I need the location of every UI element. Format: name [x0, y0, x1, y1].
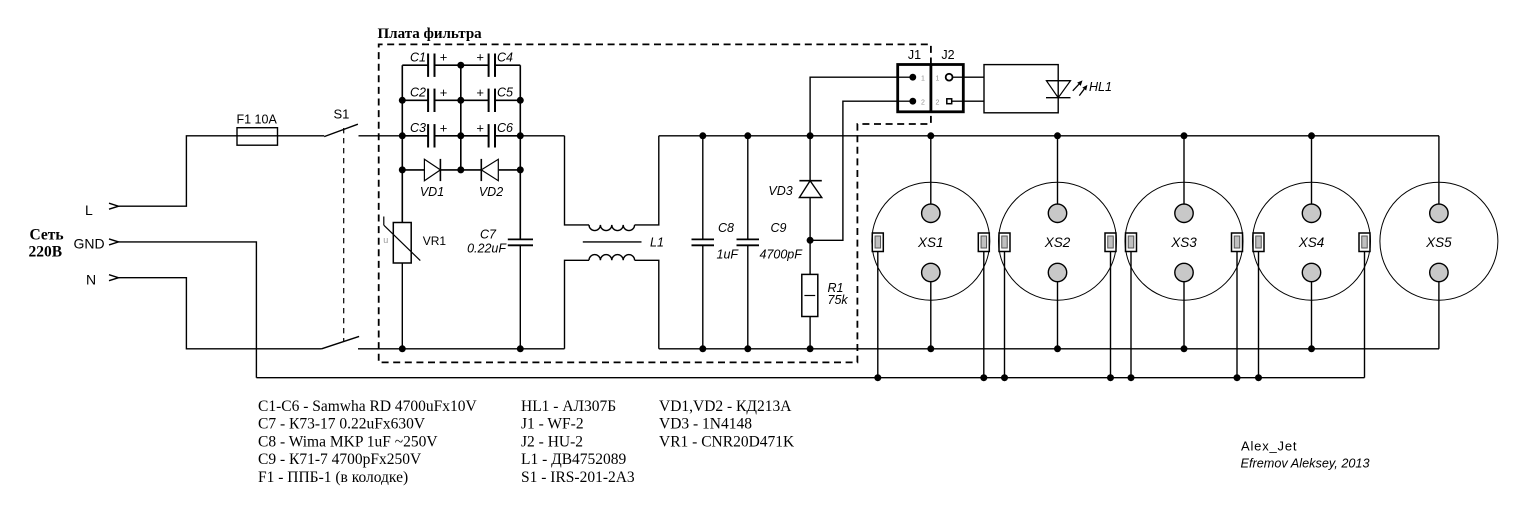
signature [1241, 439, 1370, 471]
wire XS4 right contact to ground bus [1364, 252, 1366, 378]
socket XS5 [1380, 182, 1498, 300]
svg-text:C5: C5 [497, 86, 513, 100]
svg-text:1: 1 [921, 76, 925, 83]
socket XS3 [1125, 182, 1243, 300]
wire socket XS2 right contact to ground bus [1110, 252, 1112, 378]
wire cap bank middle rail [460, 65, 462, 170]
ground bus [256, 377, 1364, 379]
wire socket XS3 right contact to ground bus [1236, 252, 1238, 378]
filter board dashed outline [379, 44, 931, 362]
switch S1 linkage [343, 128, 345, 342]
svg-text:VD2: VD2 [479, 185, 503, 199]
svg-text:L: L [85, 202, 93, 218]
LED HL1 [1046, 80, 1112, 98]
svg-text:C9 - К71-7 4700pFx250V: C9 - К71-7 4700pFx250V [258, 451, 422, 468]
svg-text:C9: C9 [771, 221, 787, 235]
wire socket XS2 top pin [1057, 136, 1059, 204]
wire J2 pin1 to lamp [963, 76, 984, 78]
wire cap bank left rail [401, 65, 403, 222]
svg-text:C3: C3 [410, 121, 426, 135]
svg-text:GND: GND [74, 236, 105, 252]
fuse F1 10A [237, 113, 278, 146]
svg-text:J2: J2 [941, 48, 954, 62]
svg-text:C7: C7 [480, 228, 497, 242]
connector J1 [898, 48, 964, 112]
legend component list [258, 398, 795, 486]
svg-text:J1: J1 [908, 48, 921, 62]
svg-text:XS1: XS1 [917, 235, 944, 250]
wire socket XS1 bottom pin [930, 282, 932, 349]
svg-text:J2 - HU-2: J2 - HU-2 [521, 433, 583, 450]
svg-text:C1: C1 [410, 51, 426, 65]
capacitor C8 [692, 136, 740, 349]
wire socket XS5 bottom pin to neutral [1438, 282, 1440, 349]
wire neutral rail S1 to choke [358, 348, 565, 350]
terminal L [85, 202, 119, 218]
mains label Сеть 220В [29, 227, 64, 261]
diode VD2 [461, 159, 521, 199]
svg-text:F1 10A: F1 10A [237, 113, 278, 127]
svg-text:S1: S1 [334, 107, 350, 122]
wire C7 to neutral [519, 245, 521, 348]
wire VR1 to neutral [401, 263, 403, 349]
lamp HL1 body [984, 65, 1058, 113]
svg-text:C8 - Wima MKP 1uF ~250V: C8 - Wima MKP 1uF ~250V [258, 433, 438, 450]
socket XS1 [872, 182, 990, 300]
wire socket XS1 top pin [930, 136, 932, 204]
wire socket XS1 right contact to ground bus [983, 252, 985, 378]
wire neutral rail choke to sockets [659, 348, 1439, 350]
wire N terminal to neutral rail [119, 278, 322, 349]
inductor L1 core [583, 241, 642, 243]
varistor VR1 [383, 217, 446, 264]
svg-text:Сеть: Сеть [30, 227, 64, 244]
diode VD1 [402, 159, 461, 199]
svg-text:Плата фильтра: Плата фильтра [378, 26, 483, 42]
svg-text:u: u [383, 235, 388, 245]
wire top rail choke to sockets [659, 135, 1439, 137]
capacitor C9 [737, 136, 804, 349]
svg-text:C6: C6 [497, 121, 513, 135]
svg-text:220В: 220В [29, 244, 63, 261]
svg-text:VD1,VD2 - КД213А: VD1,VD2 - КД213А [659, 398, 792, 415]
wire socket XS1 left contact to ground bus [877, 252, 879, 378]
svg-text:C4: C4 [497, 51, 513, 65]
svg-text:C7 - К73-17 0.22uFx630V: C7 - К73-17 0.22uFx630V [258, 416, 426, 433]
wire socket XS3 bottom pin [1183, 282, 1185, 349]
switch S1 pole A [324, 107, 358, 137]
wire J1 pin2 to R1 node [810, 101, 898, 240]
svg-text:J1 - WF-2: J1 - WF-2 [521, 416, 584, 433]
terminal GND [74, 236, 119, 252]
svg-text:Alex_Jet: Alex_Jet [1241, 439, 1297, 454]
svg-text:Efremov Aleksey, 2013: Efremov Aleksey, 2013 [1241, 457, 1370, 471]
svg-text:1: 1 [936, 76, 940, 83]
svg-text:+: + [476, 85, 484, 100]
svg-text:XS2: XS2 [1044, 235, 1071, 250]
wire L terminal to fuse [119, 136, 238, 206]
svg-text:VD3 - 1N4148: VD3 - 1N4148 [659, 416, 752, 433]
wire fuse to switch [278, 135, 325, 137]
wire J1 pin1 to top rail [810, 77, 898, 136]
wire switch to filter board [359, 135, 429, 137]
inductor L1 top winding [565, 136, 659, 231]
svg-text:VD1: VD1 [420, 185, 444, 199]
wire socket XS3 left contact to ground bus [1130, 252, 1132, 378]
svg-text:+: + [440, 120, 448, 135]
svg-text:2: 2 [936, 100, 940, 107]
svg-text:C1-C6 - Samwha RD 4700uFx10V: C1-C6 - Samwha RD 4700uFx10V [258, 398, 478, 415]
capacitor C5 [435, 85, 521, 112]
capacitor C3 [402, 120, 447, 147]
svg-text:VR1: VR1 [423, 234, 447, 248]
svg-text:HL1 - АЛ307Б: HL1 - АЛ307Б [521, 398, 616, 415]
svg-text:HL1: HL1 [1089, 80, 1112, 94]
svg-text:2: 2 [921, 100, 925, 107]
wire cap bank right rail [519, 65, 521, 239]
svg-text:4700pF: 4700pF [760, 248, 804, 262]
svg-text:0.22uF: 0.22uF [467, 241, 507, 255]
svg-text:+: + [440, 85, 448, 100]
svg-text:N: N [86, 272, 96, 288]
resistor R1 [802, 240, 849, 348]
wire GND terminal to ground bus [119, 242, 257, 378]
svg-text:+: + [476, 120, 484, 135]
wire J2 pin2 to lamp [963, 100, 984, 102]
capacitor C7 [467, 228, 533, 256]
capacitor C2 [402, 85, 447, 112]
socket XS4 [1253, 182, 1371, 300]
switch S1 pole B [322, 336, 360, 348]
svg-text:S1 - IRS-201-2А3: S1 - IRS-201-2А3 [521, 469, 635, 486]
inductor L1 bottom winding [565, 255, 659, 349]
svg-text:C8: C8 [718, 221, 734, 235]
wire socket XS4 top pin [1311, 136, 1313, 204]
wire top rail to choke [520, 135, 564, 137]
capacitor C4 [435, 50, 521, 77]
svg-text:1uF: 1uF [717, 248, 740, 262]
svg-text:L1: L1 [650, 235, 664, 249]
wire socket XS5 top pin [1438, 136, 1440, 204]
terminal N [86, 272, 119, 288]
svg-text:XS4: XS4 [1298, 235, 1325, 250]
svg-text:C2: C2 [410, 86, 426, 100]
capacitor C6 [435, 120, 521, 147]
wire socket XS4 bottom pin [1311, 282, 1313, 349]
wire socket XS2 left contact to ground bus [1004, 252, 1006, 378]
wire socket XS3 top pin [1183, 136, 1185, 204]
wire socket XS4 left contact to ground bus [1258, 252, 1260, 378]
capacitor C1 [402, 50, 447, 77]
diode VD3 [768, 136, 821, 241]
svg-text:XS3: XS3 [1170, 235, 1197, 250]
socket XS2 [999, 182, 1117, 300]
connector J2 [936, 48, 964, 107]
svg-text:XS5: XS5 [1425, 235, 1452, 250]
svg-text:VR1 - CNR20D471K: VR1 - CNR20D471K [659, 433, 795, 450]
svg-text:L1 - ДВ4752089: L1 - ДВ4752089 [521, 451, 627, 468]
svg-text:75k: 75k [828, 293, 849, 307]
svg-text:VD3: VD3 [768, 184, 792, 198]
wire socket XS2 bottom pin [1057, 282, 1059, 349]
svg-text:+: + [476, 50, 484, 65]
svg-text:F1 - ППБ-1 (в колодке): F1 - ППБ-1 (в колодке) [258, 469, 408, 486]
svg-text:+: + [440, 50, 448, 65]
